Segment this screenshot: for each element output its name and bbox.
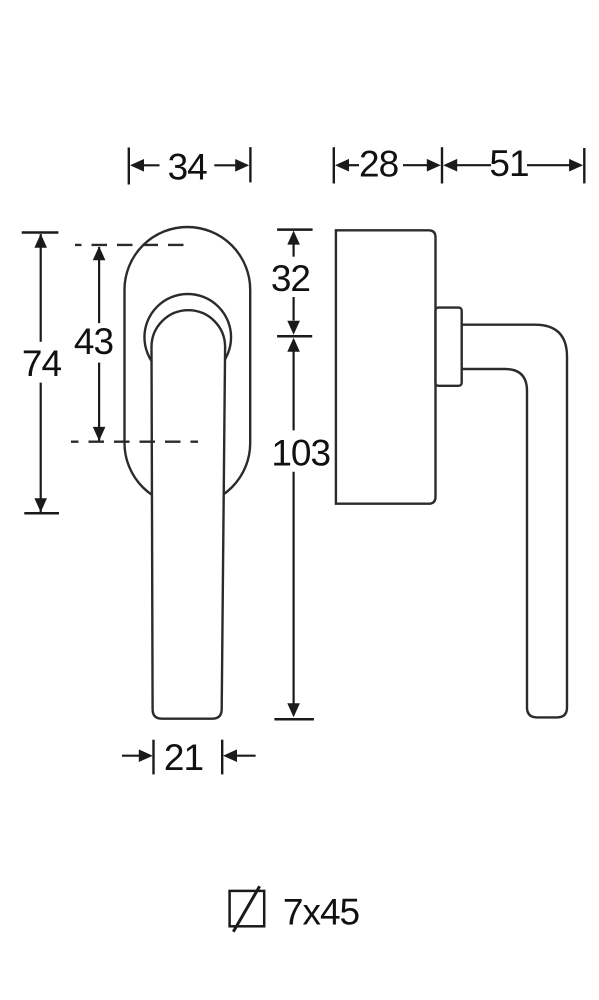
handle side view (neck and grip) (462, 325, 567, 718)
dashed centre line upper (75, 244, 192, 246)
oval rosette (front view) (125, 227, 251, 506)
dimension 28 (334, 144, 442, 185)
svg-text:51: 51 (489, 143, 528, 184)
dimension 34 (129, 147, 251, 188)
svg-text:74: 74 (22, 343, 62, 384)
escutcheon side profile (336, 230, 436, 503)
svg-text:28: 28 (359, 144, 398, 185)
spindle symbol square (230, 891, 265, 926)
dimension 21 (122, 737, 256, 778)
spindle boss (436, 308, 462, 386)
svg-text:34: 34 (168, 147, 208, 188)
svg-text:7x45: 7x45 (283, 892, 360, 933)
svg-text:32: 32 (271, 258, 310, 299)
dimension 103 (271, 338, 330, 719)
svg-text:21: 21 (164, 737, 203, 778)
handle grip (front view) (152, 310, 226, 719)
dimension 32 (271, 230, 313, 337)
dimension 74 (22, 233, 62, 514)
svg-text:103: 103 (271, 433, 330, 474)
neck collar circle (144, 294, 231, 381)
spindle symbol diagonal (233, 886, 259, 932)
dashed centre line lower (71, 441, 198, 443)
svg-text:43: 43 (74, 321, 113, 362)
dimension 51 (443, 143, 584, 184)
dimension 43 (74, 246, 113, 441)
